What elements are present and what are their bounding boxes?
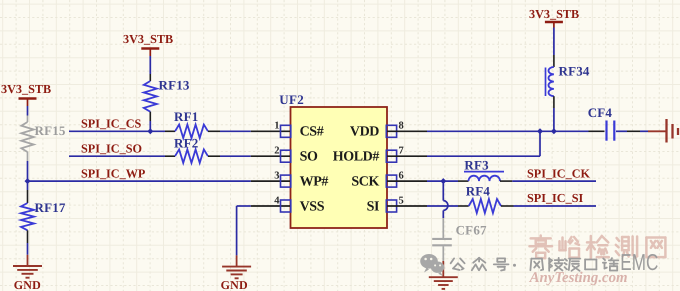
power port 3V3_STB (left) xyxy=(1,82,51,106)
wire xyxy=(149,56,151,74)
pin 6 SCK xyxy=(351,171,427,190)
wire HOLD# tied to VDD xyxy=(427,131,540,156)
svg-text:RF15: RF15 xyxy=(35,123,66,138)
svg-text:5: 5 xyxy=(399,195,404,206)
junction node VDD / HOLD# xyxy=(537,128,543,134)
wire xyxy=(27,243,29,255)
svg-text:3V3_STB: 3V3_STB xyxy=(529,7,579,21)
power port 3V3_STB (middle) xyxy=(123,32,173,56)
svg-text:RF3: RF3 xyxy=(464,157,489,172)
svg-text:RF17: RF17 xyxy=(35,200,66,215)
pin 5 SI xyxy=(367,195,427,214)
junction node SCK / CF67 xyxy=(440,178,446,184)
wire SPI_IC_WP xyxy=(28,180,251,182)
wire SI xyxy=(427,205,458,207)
svg-text:2: 2 xyxy=(274,146,279,157)
svg-text:SPI_IC_CK: SPI_IC_CK xyxy=(527,166,590,180)
inductor RF34 xyxy=(546,55,590,108)
svg-text:CS#: CS# xyxy=(300,125,324,140)
svg-text:WP#: WP# xyxy=(300,175,329,190)
wire SPI_IC_SO xyxy=(69,155,165,157)
ground power bar (right, rotated) xyxy=(648,119,680,143)
svg-text:GND: GND xyxy=(221,278,248,291)
watermark text gray: gongzhonghao fenglingdukou hua EMC xyxy=(451,258,465,270)
wire xyxy=(27,181,29,190)
wire xyxy=(442,181,444,201)
svg-text:AnyTesting.com: AnyTesting.com xyxy=(529,270,628,286)
svg-text:SCK: SCK xyxy=(351,175,379,190)
svg-text:RF2: RF2 xyxy=(174,136,198,151)
resistor RF15 (not fitted) xyxy=(21,116,66,162)
svg-text:CF4: CF4 xyxy=(588,105,613,120)
pin 2 SO xyxy=(251,146,318,165)
svg-text:SO: SO xyxy=(300,150,318,165)
svg-text:SPI_IC_SI: SPI_IC_SI xyxy=(527,191,583,205)
svg-text:HOLD#: HOLD# xyxy=(333,150,380,165)
svg-text:RF1: RF1 xyxy=(174,109,198,124)
svg-text:RF13: RF13 xyxy=(159,78,190,93)
resistor RF4 xyxy=(458,184,514,213)
resistor RF17 xyxy=(21,190,66,243)
wire xyxy=(442,210,444,218)
resistor RF13 xyxy=(144,74,190,121)
wire xyxy=(220,130,251,132)
ground GND (left) xyxy=(13,255,42,291)
svg-text:EMC: EMC xyxy=(620,249,658,275)
pin 7 HOLD# xyxy=(333,146,427,165)
watermark text red: jia yu jian ce wang xyxy=(530,236,666,259)
svg-text:GND: GND xyxy=(14,278,41,291)
capacitor CF67 (not fitted) xyxy=(432,218,487,261)
svg-text:3V3_STB: 3V3_STB xyxy=(1,82,51,96)
resistor RF2 xyxy=(165,136,220,163)
svg-text:CF67: CF67 xyxy=(456,222,487,237)
svg-text:SPI_IC_WP: SPI_IC_WP xyxy=(81,166,146,180)
pin 3 WP# xyxy=(251,171,329,190)
op IC UF2 body xyxy=(279,92,387,228)
power port 3V3_STB (right) xyxy=(529,7,579,28)
svg-text:SPI_IC_SO: SPI_IC_SO xyxy=(81,142,142,156)
wire hop over SPI_IC_SI xyxy=(443,201,448,211)
wire xyxy=(553,108,555,131)
ground (below CF67) xyxy=(429,261,458,289)
capacitor CF4 xyxy=(588,105,627,141)
junction node SPI_IC_WP xyxy=(25,178,31,184)
junction node VDD / RF34 xyxy=(551,128,557,134)
svg-text:1: 1 xyxy=(274,121,279,132)
pin 1 CS# xyxy=(251,121,324,140)
wire SCK xyxy=(427,180,458,182)
wire SPI_IC_SI xyxy=(514,205,597,207)
svg-text:RF34: RF34 xyxy=(559,64,590,79)
wire VSS xyxy=(237,205,251,207)
svg-text:3: 3 xyxy=(274,171,279,182)
svg-text:UF2: UF2 xyxy=(279,92,304,107)
wire xyxy=(627,130,640,132)
svg-text:VDD: VDD xyxy=(350,125,379,140)
svg-text:6: 6 xyxy=(399,171,404,182)
svg-text:SI: SI xyxy=(367,199,379,214)
svg-text:SPI_IC_CS: SPI_IC_CS xyxy=(81,117,141,131)
wire SPI_IC_CS xyxy=(69,130,165,132)
junction node SPI_IC_CS / RF13 xyxy=(147,128,153,134)
svg-text:RF4: RF4 xyxy=(466,184,491,199)
pin 8 VDD xyxy=(350,121,427,140)
wire SPI_IC_CK xyxy=(512,180,596,182)
wire VDD xyxy=(427,130,589,132)
wire xyxy=(220,155,251,157)
ferrite bead RF3 xyxy=(458,157,512,181)
watermark WeChat logo xyxy=(420,254,444,276)
svg-text:4: 4 xyxy=(274,195,280,206)
wire xyxy=(27,161,29,181)
svg-text:7: 7 xyxy=(399,146,404,157)
svg-text:VSS: VSS xyxy=(300,199,325,214)
ground GND (middle) xyxy=(221,255,252,291)
wire xyxy=(149,121,151,131)
wire xyxy=(553,28,555,56)
svg-text:3V3_STB: 3V3_STB xyxy=(123,32,173,46)
resistor RF1 xyxy=(165,109,220,138)
pin 4 VSS xyxy=(251,195,325,214)
svg-text:8: 8 xyxy=(399,121,404,132)
wire xyxy=(27,106,29,116)
